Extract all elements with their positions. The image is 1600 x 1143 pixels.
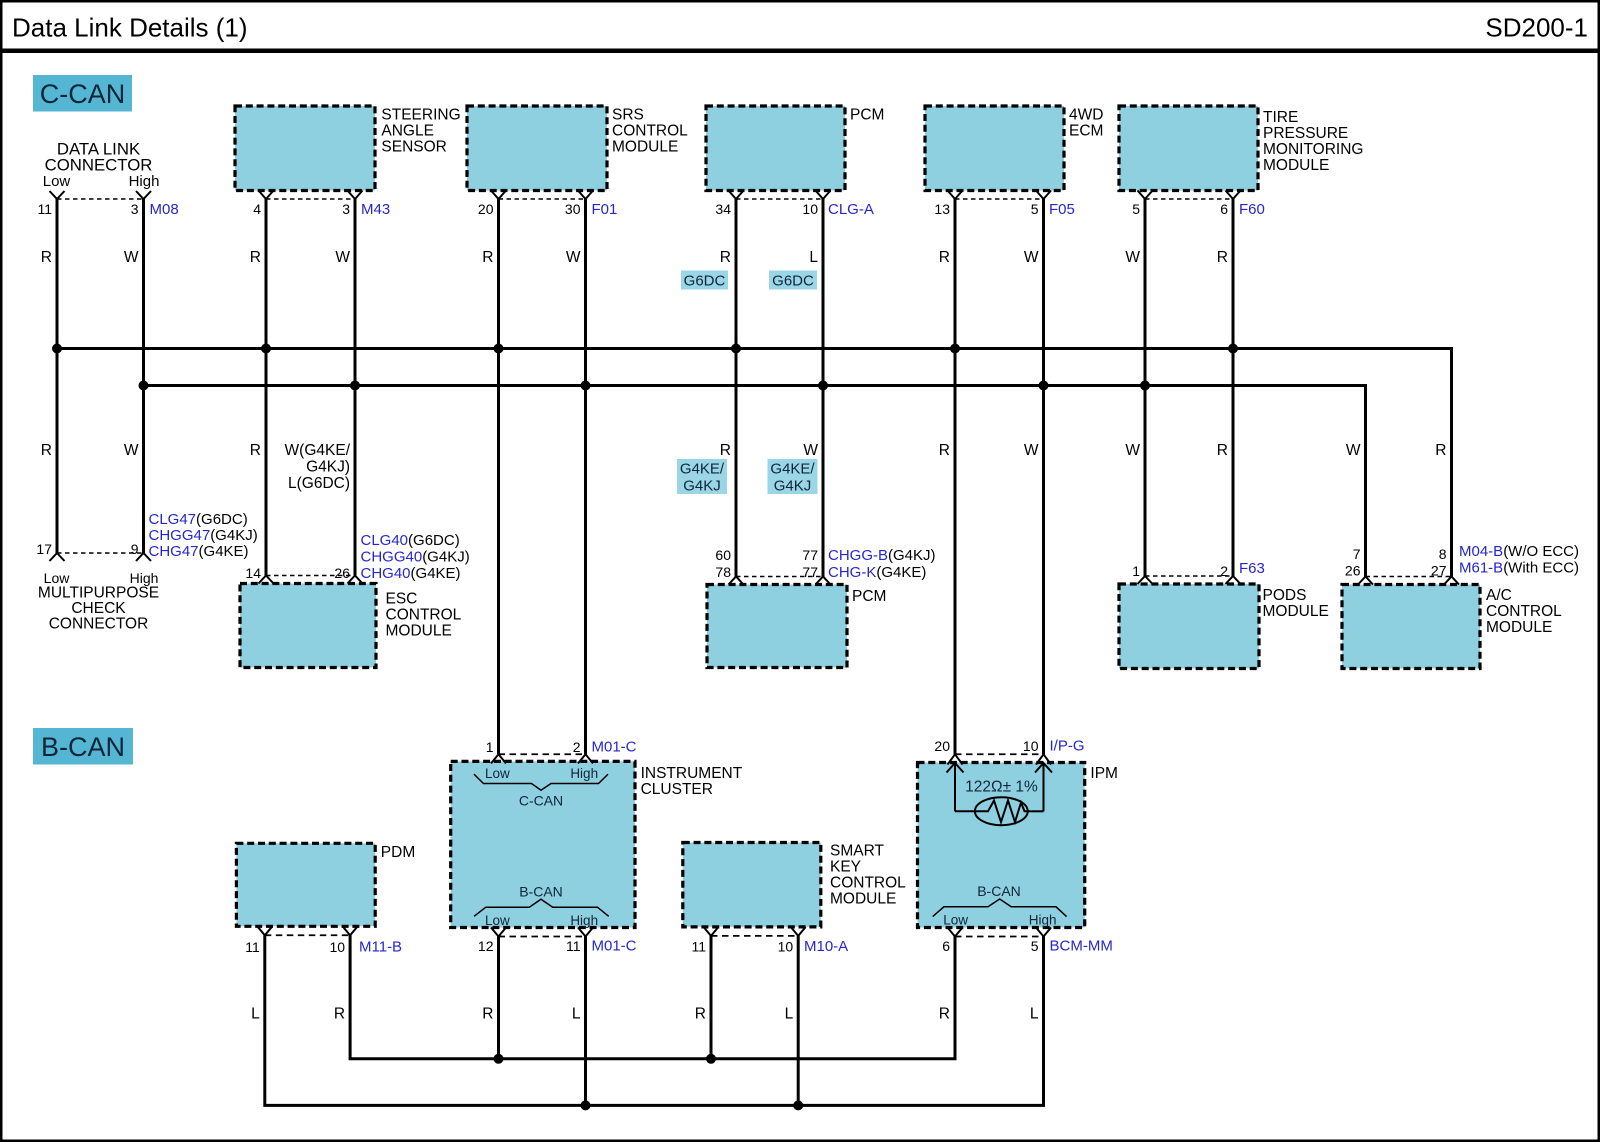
- svg-text:Low: Low: [485, 913, 510, 928]
- svg-text:R: R: [250, 442, 261, 459]
- svg-text:5: 5: [1031, 938, 1039, 954]
- svg-text:26: 26: [1345, 563, 1361, 579]
- svg-text:CONTROL: CONTROL: [386, 607, 462, 624]
- svg-text:R: R: [720, 442, 731, 459]
- svg-text:77: 77: [802, 564, 818, 580]
- svg-text:PCM: PCM: [850, 107, 884, 124]
- svg-text:STEERING: STEERING: [381, 107, 460, 124]
- svg-text:6: 6: [942, 938, 950, 954]
- svg-text:B-CAN: B-CAN: [519, 884, 563, 900]
- svg-text:R: R: [482, 1006, 493, 1023]
- svg-text:G4KE/: G4KE/: [770, 461, 815, 478]
- svg-text:M01-C: M01-C: [592, 739, 637, 756]
- svg-text:20: 20: [934, 738, 950, 754]
- svg-text:11: 11: [245, 939, 260, 955]
- svg-text:R: R: [939, 1006, 950, 1023]
- svg-text:G4KJ): G4KJ): [306, 459, 350, 476]
- svg-text:Low: Low: [485, 766, 510, 781]
- svg-text:77: 77: [802, 547, 818, 563]
- svg-text:14: 14: [245, 565, 261, 581]
- svg-text:1: 1: [1132, 563, 1140, 579]
- svg-text:CHG47(G4KE): CHG47(G4KE): [149, 543, 249, 560]
- svg-text:Data Link Details (1): Data Link Details (1): [12, 13, 248, 43]
- svg-text:R: R: [250, 249, 261, 266]
- svg-text:SD200-1: SD200-1: [1485, 13, 1588, 43]
- svg-text:5: 5: [1031, 201, 1039, 217]
- svg-text:High: High: [570, 766, 598, 781]
- svg-text:R: R: [1435, 442, 1446, 459]
- svg-text:CHGG-B(G4KJ): CHGG-B(G4KJ): [828, 547, 936, 564]
- svg-text:78: 78: [715, 564, 731, 580]
- svg-text:M10-A: M10-A: [804, 938, 848, 955]
- svg-text:ANGLE: ANGLE: [381, 123, 434, 140]
- svg-text:2: 2: [573, 739, 581, 755]
- svg-text:L(G6DC): L(G6DC): [288, 475, 350, 492]
- svg-text:8: 8: [1439, 546, 1447, 562]
- svg-text:L: L: [251, 1006, 260, 1023]
- svg-text:G6DC: G6DC: [772, 273, 814, 290]
- svg-text:CLG40(G6DC): CLG40(G6DC): [361, 532, 460, 549]
- svg-text:W(G4KE/: W(G4KE/: [285, 442, 351, 459]
- svg-text:7: 7: [1353, 546, 1361, 562]
- svg-text:R: R: [1217, 442, 1228, 459]
- svg-text:3: 3: [131, 201, 139, 217]
- svg-text:W: W: [803, 442, 818, 459]
- svg-text:PODS: PODS: [1263, 587, 1307, 604]
- svg-text:MODULE: MODULE: [1263, 157, 1329, 174]
- svg-text:W: W: [566, 249, 581, 266]
- svg-text:CHG40(G4KE): CHG40(G4KE): [361, 565, 461, 582]
- svg-text:CLG-A: CLG-A: [828, 201, 874, 218]
- svg-text:F01: F01: [592, 201, 618, 218]
- svg-text:High: High: [570, 913, 598, 928]
- svg-text:27: 27: [1431, 563, 1447, 579]
- svg-text:4WD: 4WD: [1069, 107, 1103, 124]
- svg-text:C-CAN: C-CAN: [519, 793, 563, 809]
- svg-text:TIRE: TIRE: [1263, 109, 1298, 126]
- svg-text:1: 1: [486, 739, 494, 755]
- svg-text:PCM: PCM: [852, 588, 886, 605]
- svg-text:MONITORING: MONITORING: [1263, 141, 1363, 158]
- svg-text:B-CAN: B-CAN: [977, 883, 1021, 899]
- svg-text:34: 34: [715, 201, 731, 217]
- svg-text:High: High: [1029, 913, 1057, 928]
- svg-text:26: 26: [334, 565, 350, 581]
- svg-text:11: 11: [691, 939, 706, 955]
- svg-text:R: R: [482, 249, 493, 266]
- svg-text:INSTRUMENT: INSTRUMENT: [641, 765, 743, 782]
- svg-text:10: 10: [330, 939, 346, 955]
- svg-text:G6DC: G6DC: [684, 273, 726, 290]
- svg-text:L: L: [809, 249, 818, 266]
- svg-text:11: 11: [566, 938, 581, 954]
- svg-text:CLG47(G6DC): CLG47(G6DC): [149, 511, 248, 528]
- svg-text:C-CAN: C-CAN: [40, 79, 126, 109]
- svg-text:13: 13: [934, 201, 950, 217]
- svg-text:R: R: [334, 1006, 345, 1023]
- svg-text:G4KJ: G4KJ: [774, 478, 812, 495]
- svg-text:CONTROL: CONTROL: [612, 123, 688, 140]
- svg-text:PRESSURE: PRESSURE: [1263, 125, 1348, 142]
- svg-text:R: R: [720, 249, 731, 266]
- svg-text:W: W: [1346, 442, 1361, 459]
- svg-text:11: 11: [37, 201, 52, 217]
- svg-text:Low: Low: [943, 913, 968, 928]
- svg-text:MODULE: MODULE: [1486, 619, 1552, 636]
- svg-text:KEY: KEY: [830, 859, 861, 876]
- svg-text:I/P-G: I/P-G: [1050, 738, 1085, 755]
- svg-text:CONTROL: CONTROL: [830, 875, 906, 892]
- svg-text:12: 12: [478, 938, 494, 954]
- svg-text:R: R: [1217, 249, 1228, 266]
- svg-text:MODULE: MODULE: [612, 139, 678, 156]
- svg-text:ESC: ESC: [386, 591, 418, 608]
- svg-text:2: 2: [1220, 563, 1228, 579]
- svg-text:L: L: [1030, 1006, 1039, 1023]
- svg-text:R: R: [939, 249, 950, 266]
- svg-text:20: 20: [478, 201, 494, 217]
- svg-text:6: 6: [1220, 201, 1228, 217]
- svg-text:122Ω± 1%: 122Ω± 1%: [965, 779, 1038, 796]
- svg-text:10: 10: [802, 201, 818, 217]
- svg-text:CLUSTER: CLUSTER: [641, 781, 713, 798]
- svg-text:M08: M08: [150, 201, 179, 218]
- svg-text:MODULE: MODULE: [830, 891, 896, 908]
- svg-text:W: W: [335, 249, 350, 266]
- svg-text:W: W: [1125, 249, 1140, 266]
- svg-text:CONNECTOR: CONNECTOR: [45, 156, 153, 175]
- svg-text:9: 9: [131, 541, 139, 557]
- svg-text:M11-B: M11-B: [359, 939, 402, 956]
- svg-text:R: R: [41, 249, 52, 266]
- svg-text:10: 10: [778, 939, 794, 955]
- svg-text:BCM-MM: BCM-MM: [1050, 938, 1113, 955]
- svg-text:M61-B(With ECC): M61-B(With ECC): [1459, 560, 1579, 577]
- svg-text:M43: M43: [361, 201, 390, 218]
- svg-text:SRS: SRS: [612, 107, 644, 124]
- svg-text:R: R: [695, 1006, 706, 1023]
- svg-text:W: W: [124, 249, 139, 266]
- svg-text:SMART: SMART: [830, 843, 885, 860]
- svg-text:W: W: [1024, 442, 1039, 459]
- svg-text:5: 5: [1132, 201, 1140, 217]
- svg-text:F05: F05: [1049, 201, 1075, 218]
- svg-text:CHGG47(G4KJ): CHGG47(G4KJ): [149, 527, 258, 544]
- svg-text:10: 10: [1023, 738, 1039, 754]
- svg-text:F63: F63: [1239, 560, 1265, 577]
- svg-text:G4KJ: G4KJ: [683, 478, 721, 495]
- svg-text:R: R: [939, 442, 950, 459]
- svg-text:3: 3: [342, 201, 350, 217]
- svg-text:PDM: PDM: [381, 844, 415, 861]
- svg-text:W: W: [1024, 249, 1039, 266]
- svg-text:IPM: IPM: [1090, 765, 1118, 782]
- svg-text:F60: F60: [1239, 201, 1265, 218]
- svg-text:4: 4: [253, 201, 261, 217]
- svg-text:M04-B(W/O ECC): M04-B(W/O ECC): [1459, 543, 1579, 560]
- svg-text:ECM: ECM: [1069, 123, 1103, 140]
- svg-text:L: L: [785, 1006, 794, 1023]
- svg-text:CONTROL: CONTROL: [1486, 603, 1562, 620]
- svg-text:CONNECTOR: CONNECTOR: [49, 616, 149, 633]
- svg-text:G4KE/: G4KE/: [680, 461, 725, 478]
- svg-text:A/C: A/C: [1486, 587, 1512, 604]
- svg-text:B-CAN: B-CAN: [41, 732, 125, 762]
- svg-text:High: High: [129, 173, 160, 190]
- svg-text:MODULE: MODULE: [1263, 603, 1329, 620]
- svg-text:MODULE: MODULE: [386, 623, 452, 640]
- svg-text:L: L: [572, 1006, 581, 1023]
- svg-text:M01-C: M01-C: [592, 938, 637, 955]
- svg-text:CHG-K(G4KE): CHG-K(G4KE): [828, 564, 926, 581]
- svg-text:SENSOR: SENSOR: [381, 139, 446, 156]
- svg-text:W: W: [1125, 442, 1140, 459]
- svg-text:CHGG40(G4KJ): CHGG40(G4KJ): [361, 549, 470, 566]
- svg-text:Low: Low: [43, 173, 71, 190]
- svg-text:CHECK: CHECK: [71, 600, 126, 617]
- svg-text:30: 30: [565, 201, 581, 217]
- svg-text:60: 60: [715, 547, 731, 563]
- svg-text:17: 17: [36, 541, 52, 557]
- svg-text:R: R: [41, 442, 52, 459]
- svg-text:W: W: [124, 442, 139, 459]
- svg-text:MULTIPURPOSE: MULTIPURPOSE: [38, 585, 159, 602]
